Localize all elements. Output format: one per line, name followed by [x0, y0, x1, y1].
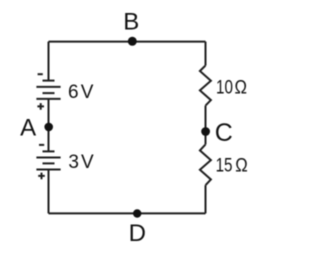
svg-text:A: A [20, 115, 36, 142]
svg-text:V: V [81, 152, 94, 173]
svg-text:Ω: Ω [235, 77, 247, 98]
svg-text:3: 3 [68, 152, 79, 173]
svg-text:15: 15 [216, 154, 233, 176]
svg-text:D: D [129, 220, 146, 247]
svg-text:6: 6 [68, 82, 79, 103]
svg-text:C: C [215, 119, 233, 147]
svg-text:Ω: Ω [235, 154, 247, 175]
svg-text:10: 10 [216, 76, 233, 98]
svg-text:B: B [123, 9, 139, 36]
svg-text:V: V [81, 82, 94, 103]
